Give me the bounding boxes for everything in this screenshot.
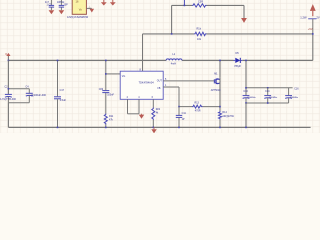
wire (bottom ground bus) [8, 126, 310, 128]
svg-text:470R: 470R [195, 110, 201, 113]
svg-text:FB: FB [158, 88, 161, 90]
junction [8, 88, 10, 90]
svg-text:680MHz: 680MHz [269, 97, 277, 99]
wire (IC gnd pins) [128, 99, 140, 114]
svg-text:OUT: OUT [157, 80, 163, 83]
resistor R11 [104, 114, 114, 128]
resistor R16 (upper rail) [194, 27, 207, 41]
op-amp U2 (PWM controller IC box) [120, 68, 163, 99]
svg-text:R22: R22 [156, 108, 161, 111]
capacitor C16 [285, 88, 299, 103]
junction [8, 60, 10, 62]
resistor R5 (snubber, top) [192, 1, 207, 8]
svg-text:⊥.: ⊥. [88, 5, 91, 9]
svg-text:R1k: R1k [197, 27, 202, 30]
resistor R14 (sense) [219, 111, 235, 128]
power port VCC1 (red down arrow, cut at top) [101, 0, 107, 6]
svg-text:2V: 2V [316, 15, 319, 19]
resistor R22 (IC pin 6 to bus) [152, 99, 161, 127]
svg-text:680MHz: 680MHz [247, 97, 255, 99]
wire (output cap rail) [245, 60, 292, 96]
ground GND4 (IC, red arrow) [139, 114, 144, 119]
capacitor C2 (top-left decoupling, cut at top) [57, 0, 68, 10]
svg-text:C16: C16 [294, 88, 299, 91]
wire (top loop horizontal) [172, 4, 192, 6]
svg-text:(4)100uF-400: (4)100uF-400 [31, 94, 47, 97]
power port +12V (top right, red up arrow) [300, 4, 320, 34]
capacitor C17 (branch) [54, 60, 66, 128]
svg-text:1.5uF: 1.5uF [60, 99, 67, 102]
svg-text:APT5010: APT5010 [211, 89, 221, 92]
capacitor C4 (bulk electrolytic, right) [26, 86, 47, 103]
svg-text:AR(4)0.5W: AR(4)0.5W [222, 115, 234, 118]
wire (upper rail y=34) [143, 33, 195, 35]
wire (gate drive) [163, 80, 214, 82]
svg-text:R11: R11 [109, 115, 114, 118]
capacitor C11 [176, 107, 187, 128]
svg-text:PByR: PByR [235, 65, 241, 68]
wire (output cap bottom) [245, 102, 288, 127]
regulator U5 (yellow box, cut at top) [72, 0, 86, 14]
svg-text:680MHz: 680MHz [290, 97, 298, 99]
wire (loop left drop) [171, 5, 173, 34]
ground GND1 (red arrow under C1) [49, 10, 55, 14]
node A (branch to IC vcc pin) [105, 60, 120, 91]
wire (mid rail y=60.4) [8, 59, 166, 61]
capacitor C10 [243, 90, 256, 103]
wire (input loop bottom) [8, 102, 29, 104]
svg-text:1 C?: 1 C? [47, 4, 53, 6]
wire (left rail to bus) [7, 103, 9, 128]
transistor M1 (MOSFET) [211, 60, 221, 111]
inductor L1 [166, 53, 182, 65]
capacitor C09 [99, 88, 115, 114]
resistor R13 [192, 101, 203, 112]
svg-text:10P: 10P [64, 4, 69, 6]
power port VCC2 (red down arrow, cut at top) [110, 0, 116, 6]
svg-text:R13: R13 [195, 101, 200, 104]
svg-text:C10: C10 [243, 90, 248, 93]
capacitor C2A (bulk electrolytic, left) [0, 86, 17, 103]
svg-text:R14: R14 [222, 111, 227, 114]
junction [184, 5, 186, 7]
svg-text:4mH: 4mH [171, 63, 176, 66]
svg-text:C09: C09 [99, 88, 104, 91]
capacitor C1 (top-left decoupling, cut at top) [45, 0, 54, 10]
wire (feedback pin) [163, 85, 179, 106]
svg-text:12V(1)/3.6ANMOW: 12V(1)/3.6ANMOW [67, 16, 89, 19]
junction [312, 33, 314, 35]
svg-text:100nF: 100nF [107, 93, 114, 96]
capacitor C14 [264, 88, 277, 103]
wire (U5 output pin) [86, 7, 91, 9]
svg-text:C17: C17 [60, 89, 65, 92]
svg-text:C14: C14 [265, 90, 270, 93]
svg-text:FLYG)TTB-400: FLYG)TTB-400 [0, 98, 17, 101]
svg-text:C11: C11 [182, 112, 187, 115]
ground GND5 (bus, red arrow cut at bottom) [151, 127, 156, 133]
ground GND2 (red arrow under C2) [59, 10, 65, 14]
svg-text:1P: 1P [182, 118, 185, 121]
power port PG1 (red arrow at U5 output) [90, 9, 95, 13]
ground GND3 (red arrow) [241, 18, 247, 23]
svg-text:TDK4784A04: TDK4784A04 [139, 82, 155, 85]
power port VIN (red glyph at left rail top) [5, 53, 10, 61]
wire (input loop top) [8, 88, 29, 90]
wire (right rail drop to mid) [312, 34, 314, 61]
diode D5 [234, 52, 243, 68]
wire (left rail down) [7, 60, 9, 94]
svg-text:C5R: C5R [198, 1, 203, 4]
svg-text:1.2W: 1.2W [300, 15, 307, 19]
node stub (net up, cut) [183, 0, 185, 5]
wire (source/feedback node) [179, 106, 192, 108]
junction [171, 33, 173, 35]
wire (top feed to IC) [142, 34, 144, 71]
wire (top loop right drop) [243, 5, 245, 18]
svg-text:+5V: +5V [308, 27, 313, 31]
